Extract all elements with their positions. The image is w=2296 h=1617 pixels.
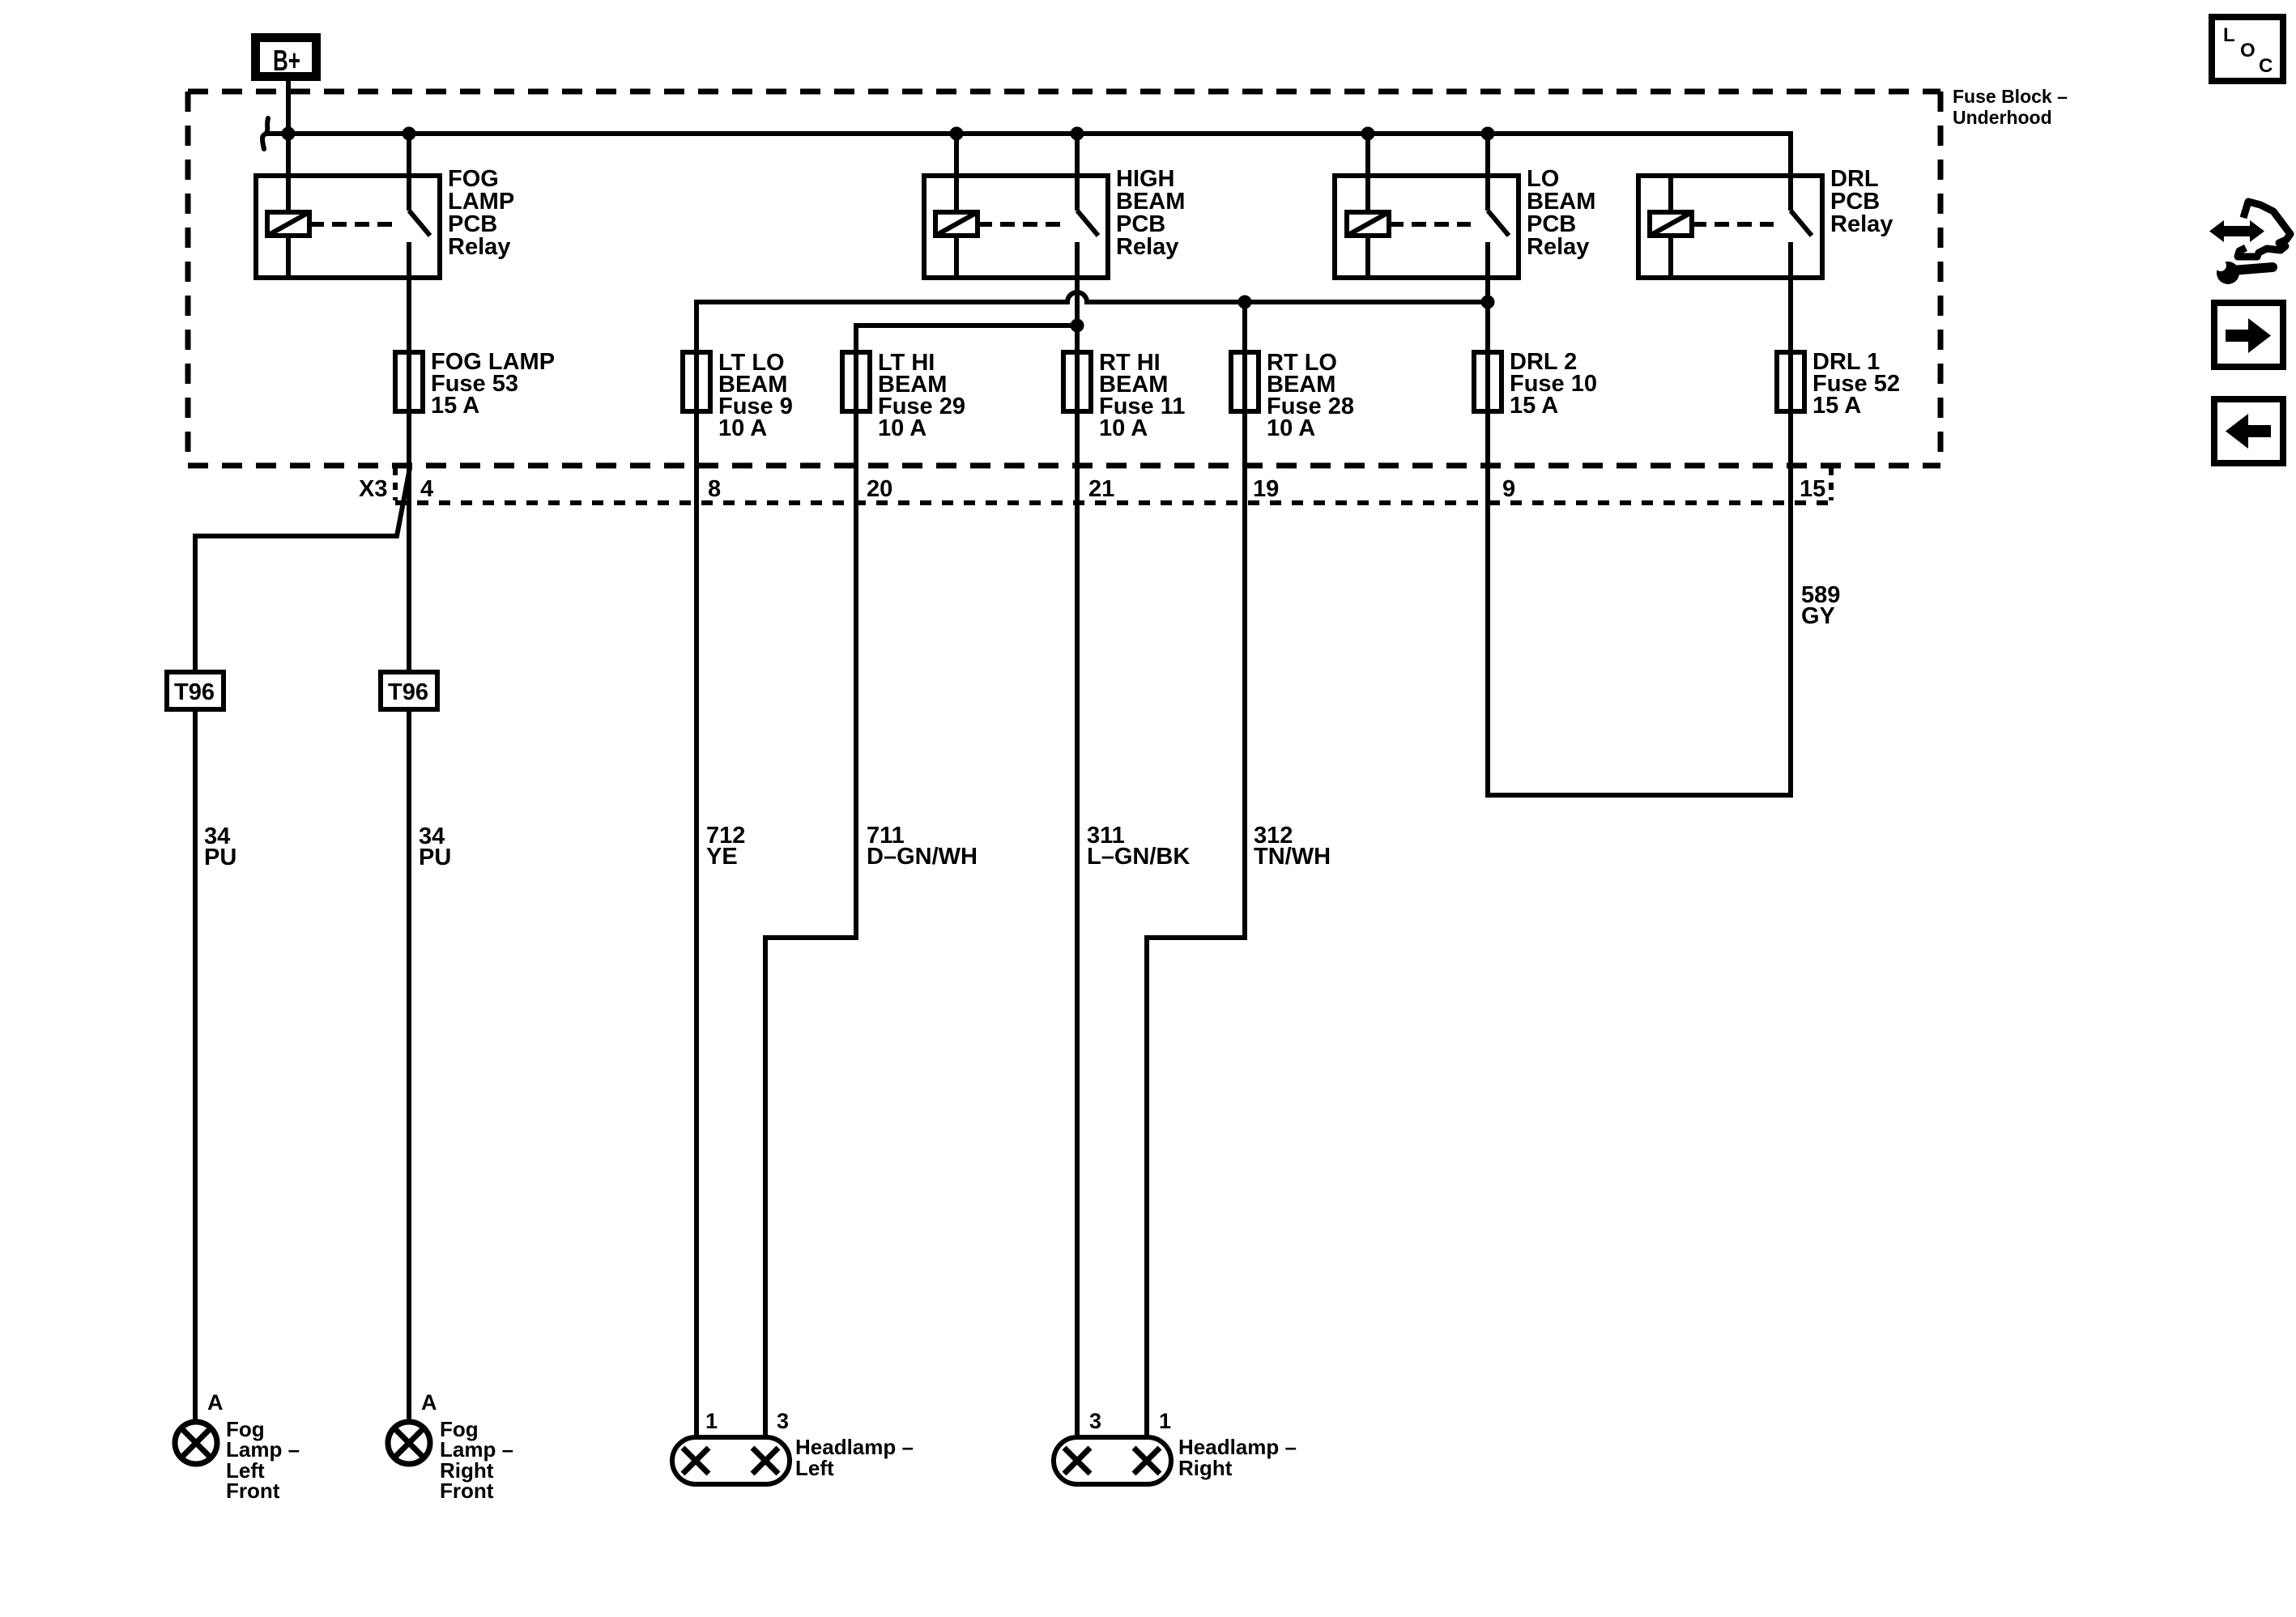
node: lo beam relay coil tap: [1361, 127, 1375, 141]
svg-text:O: O: [2240, 40, 2256, 62]
svg-text:9: 9: [1502, 476, 1515, 502]
fuse F6: DRL 2 Fuse 10 15A: [1474, 349, 1597, 419]
wire 311 L-GN/BK: fuse 11 to right headlamp pin 3: [1075, 411, 1080, 1437]
icon: arrow back box: [2214, 399, 2283, 463]
svg-text:L–GN/BK: L–GN/BK: [1087, 844, 1190, 870]
svg-text:10 A: 10 A: [1267, 415, 1315, 441]
svg-text:19: 19: [1253, 476, 1279, 502]
svg-text:Left: Left: [795, 1456, 834, 1480]
relay K4: DRL PCB Relay: [1638, 131, 1893, 278]
fuse F4: RT HI BEAM Fuse 11 10A: [1063, 350, 1185, 441]
svg-text:L: L: [2223, 24, 2235, 46]
icon: car repair info (car outline, double arrow, wrench): [2209, 202, 2290, 284]
battery feed terminal B+: [256, 38, 317, 78]
wire 711 D-GN/WH: fuse 29 to left headlamp pin 3 (with jog): [765, 411, 856, 1437]
bus break symbol (continuation arc): [262, 118, 268, 149]
fuse F3: LT HI BEAM Fuse 29 10A: [842, 350, 965, 441]
svg-text:T96: T96: [388, 679, 428, 705]
svg-text:Right: Right: [1178, 1456, 1233, 1480]
node: LT HI tap on high beam feed: [1071, 319, 1084, 333]
wire 34 PU right: T96 to fog lamp right: [407, 709, 411, 1422]
fuse F2: LT LO BEAM Fuse 9 10A: [683, 350, 793, 441]
svg-text:PU: PU: [419, 845, 451, 870]
fuse F5: RT LO BEAM Fuse 28 10A: [1231, 350, 1354, 441]
fuse F1: FOG LAMP Fuse 53 15A: [395, 349, 555, 419]
svg-text:TN/WH: TN/WH: [1254, 844, 1331, 870]
svg-text:1: 1: [705, 1409, 718, 1433]
node: fog relay switch tap: [403, 127, 416, 141]
wire: lo beam feed line with hop over RT HI wire: [696, 292, 1488, 352]
svg-text:4: 4: [420, 476, 433, 502]
svg-text:Relay: Relay: [448, 234, 510, 260]
connector X3 right stub: [1829, 468, 1834, 500]
svg-text:20: 20: [867, 476, 892, 502]
node: DRL2 tap at lo beam switch: [1481, 296, 1495, 309]
Fuse Block Underhood dashed box border: [188, 91, 1940, 466]
node: lo beam relay switch tap: [1481, 127, 1495, 141]
svg-text:15 A: 15 A: [1813, 393, 1861, 419]
fog lamp right front symbol: [388, 1422, 430, 1464]
headlamp left symbol: [672, 1437, 790, 1484]
svg-text:8: 8: [708, 476, 721, 502]
wire 712 YE: fuse 9 to left headlamp pin 1: [694, 411, 699, 1437]
node: RT LO tap: [1238, 296, 1252, 309]
svg-text:B+: B+: [273, 44, 300, 77]
svg-text:Underhood: Underhood: [1953, 107, 2052, 128]
power bus wire: [266, 131, 1791, 136]
svg-text:A: A: [421, 1390, 437, 1415]
node: high beam relay coil tap: [950, 127, 964, 141]
svg-text:YE: YE: [706, 844, 738, 870]
svg-text:Relay: Relay: [1116, 234, 1178, 260]
fog lamp left front symbol: [175, 1422, 217, 1464]
svg-text:15: 15: [1800, 476, 1825, 502]
svg-text:3: 3: [777, 1409, 789, 1433]
svg-text:T96: T96: [174, 679, 215, 705]
relay K2: HIGH BEAM PCB Relay: [924, 134, 1185, 278]
wire: RT LO branch down to fuse 28: [1242, 302, 1247, 352]
wire B+ down to bus: [286, 81, 291, 134]
headlamp right symbol: [1054, 1437, 1171, 1484]
wire: fog relay switch to fuse 53: [407, 278, 411, 352]
node: high beam relay switch tap: [1071, 127, 1084, 141]
relay K3: LO BEAM PCB Relay: [1335, 134, 1595, 278]
svg-text:Front: Front: [440, 1479, 494, 1503]
svg-text:Fuse Block –: Fuse Block –: [1953, 86, 2068, 107]
wire: drl relay switch down to DRL1 fuse: [1788, 278, 1793, 352]
wire 34 PU left: T96 to fog lamp left: [193, 709, 198, 1422]
svg-text:1: 1: [1159, 1409, 1171, 1433]
node: B+ tap on bus: [282, 127, 296, 141]
wire: high beam relay switch down to RT HI fuse: [1075, 278, 1080, 352]
wire 312 TN/WH: fuse 28 to right headlamp pin 1 (with jog): [1147, 411, 1245, 1437]
icon: LOC reference box: [2212, 17, 2283, 81]
splice T96 right: [381, 672, 437, 709]
svg-text:D–GN/WH: D–GN/WH: [867, 844, 978, 870]
svg-text:10 A: 10 A: [878, 415, 926, 441]
svg-text:Front: Front: [226, 1479, 280, 1503]
connector X3 left stub: [393, 468, 398, 500]
wire: lo beam relay switch down to DRL2 fuse: [1485, 278, 1490, 352]
svg-text:PU: PU: [204, 845, 236, 870]
wire: high beam feed line to LT HI: [856, 326, 1077, 352]
wire: fog left branch slant from pin 4: [195, 468, 410, 672]
svg-text:10 A: 10 A: [1099, 415, 1148, 441]
svg-text:A: A: [207, 1390, 224, 1415]
svg-text:15 A: 15 A: [1510, 393, 1558, 419]
svg-text:21: 21: [1088, 476, 1114, 502]
relay K1: FOG LAMP PCB Relay: [256, 134, 514, 278]
svg-text:Relay: Relay: [1830, 211, 1893, 237]
splice T96 left: [167, 672, 224, 709]
wire 589 GY: DRL2 pin 9 loop to DRL1 pin 15: [1488, 411, 1791, 795]
svg-text:GY: GY: [1801, 603, 1835, 629]
svg-text:X3: X3: [359, 476, 387, 502]
fuse F7: DRL 1 Fuse 52 15A: [1777, 349, 1900, 419]
svg-text:C: C: [2259, 55, 2273, 77]
svg-text:Relay: Relay: [1527, 234, 1589, 260]
connector X3 row: [395, 500, 1831, 505]
icon: arrow next box: [2214, 303, 2283, 367]
svg-text:10 A: 10 A: [718, 415, 767, 441]
svg-text:15 A: 15 A: [431, 393, 479, 419]
wire: fog right branch fuse to T96: [407, 411, 411, 672]
svg-text:3: 3: [1089, 1409, 1101, 1433]
